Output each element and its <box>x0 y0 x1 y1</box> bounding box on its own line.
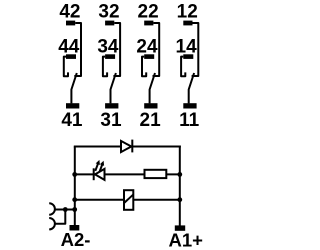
contact group 12/14/11 <box>176 2 200 131</box>
contact group 42/44/41 <box>58 2 83 131</box>
terminal box A2 <box>70 225 80 231</box>
wire: LED / resistor branch <box>75 173 180 175</box>
wire: upper plug contact to left bus <box>55 209 75 211</box>
LED indicator (cathode left) <box>94 160 105 180</box>
wire from 44 to NO contact <box>64 57 68 77</box>
terminal box A1 <box>175 225 185 230</box>
relay coil K1 <box>124 190 133 210</box>
wire from 34 to NO contact <box>103 57 107 77</box>
plug contact upper arc <box>49 203 55 214</box>
junction: LED branch / left bus <box>72 172 77 177</box>
wire from 22 to NC contact <box>153 23 160 76</box>
terminal box 24 <box>144 54 154 59</box>
junction: plug link tee <box>63 207 68 212</box>
contact group 32/34/31 <box>97 2 122 131</box>
svg-text:41: 41 <box>61 110 83 131</box>
svg-text:A1+: A1+ <box>168 229 203 250</box>
terminal box 34 <box>105 54 115 59</box>
wire from 32 to NC contact <box>113 23 120 76</box>
svg-text:34: 34 <box>97 36 119 57</box>
svg-text:32: 32 <box>98 2 119 23</box>
terminal box 12 <box>183 21 192 26</box>
svg-text:44: 44 <box>58 36 80 57</box>
plug contact lower arc <box>49 218 55 229</box>
wire: left bus from top branch to A2 terminal <box>74 147 76 226</box>
wire: top branch <box>74 146 181 148</box>
switch blade common 41 <box>71 73 76 103</box>
switch blade common 11 <box>189 73 194 103</box>
terminal box 32 <box>105 21 114 26</box>
terminal box 22 <box>144 21 153 26</box>
diode V1 (freewheel, cathode right) <box>121 140 132 153</box>
terminal box 42 <box>66 21 75 26</box>
terminal box 44 <box>66 54 76 59</box>
terminal box 14 <box>183 54 193 59</box>
wire from 14 to NO contact <box>181 57 185 77</box>
junction: LED branch / right bus <box>177 172 182 177</box>
wire from 12 to NC contact <box>192 23 199 76</box>
resistor R1 <box>145 170 167 178</box>
junction: coil branch / left bus <box>72 197 77 202</box>
svg-text:21: 21 <box>140 110 162 131</box>
svg-text:12: 12 <box>177 2 198 23</box>
svg-text:24: 24 <box>136 36 158 57</box>
svg-text:31: 31 <box>100 110 122 131</box>
wire: relay coil branch <box>75 199 180 201</box>
switch blade common 21 <box>150 73 155 103</box>
terminal box 21 <box>144 103 157 108</box>
svg-text:22: 22 <box>138 2 159 23</box>
wire: right bus to A1 terminal <box>179 146 181 226</box>
svg-text:42: 42 <box>59 2 80 23</box>
svg-text:A2-: A2- <box>61 229 91 250</box>
junction: plug line / left bus <box>72 207 77 212</box>
terminal box 31 <box>105 103 118 108</box>
svg-text:14: 14 <box>176 36 198 57</box>
contact group 22/24/21 <box>136 2 161 131</box>
wire: lower plug contact link <box>55 210 65 224</box>
junction: coil branch / right bus <box>177 197 182 202</box>
terminal box 41 <box>66 103 79 108</box>
terminal box 11 <box>183 103 196 108</box>
svg-text:11: 11 <box>179 110 200 131</box>
switch blade common 31 <box>111 73 116 103</box>
wire from 42 to NC contact <box>74 23 81 76</box>
wire from 24 to NO contact <box>142 57 146 77</box>
